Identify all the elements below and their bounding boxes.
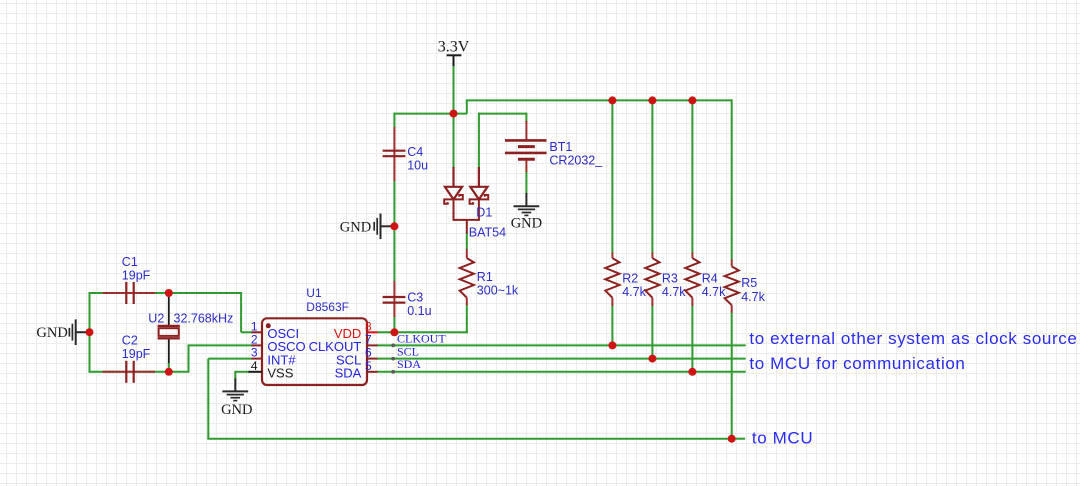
- label R3: [662, 272, 678, 286]
- svg-text:GND: GND: [221, 402, 252, 418]
- pin name SDA: [335, 366, 362, 381]
- wire OSCI vertical: [240, 292, 242, 332]
- wire R2 top: [611, 100, 613, 253]
- pin 2 stub: [252, 344, 263, 346]
- wire OSCO vertical: [188, 344, 190, 371]
- wire to battery: [479, 113, 527, 115]
- wire top rail: [466, 99, 732, 101]
- svg-text:0.1u: 0.1u: [407, 304, 431, 318]
- wire right diode anode: [478, 113, 480, 168]
- pin number 4: [251, 359, 258, 373]
- pin name OSCO: [267, 339, 305, 354]
- pin number 3: [251, 346, 258, 360]
- pin 1 stub: [252, 331, 263, 333]
- svg-text:10u: 10u: [407, 159, 428, 173]
- svg-text:2: 2: [251, 332, 258, 346]
- pin 6 stub: [367, 358, 378, 360]
- label C2 19pF: [122, 347, 151, 361]
- resistor R4: [685, 252, 699, 306]
- pin number 6: [365, 346, 372, 360]
- ground under BT1: [514, 193, 540, 215]
- svg-text:3: 3: [251, 346, 258, 360]
- pin 4 stub: [249, 371, 263, 373]
- net anchor SCL: [391, 357, 395, 361]
- wire VDD: [377, 331, 468, 333]
- wire SCL: [377, 358, 746, 360]
- wire R5 top: [731, 99, 733, 260]
- crystal U2: [158, 294, 180, 372]
- wire INT# horizontal: [208, 358, 252, 360]
- junction C4 GND: [390, 222, 398, 230]
- label C2: [122, 333, 138, 347]
- pin number 5: [365, 359, 372, 373]
- svg-text:C2: C2: [122, 333, 138, 347]
- svg-text:5: 5: [365, 359, 372, 373]
- svg-text:6: 6: [365, 346, 372, 360]
- wire C2 row: [90, 371, 190, 373]
- pin 5 stub: [367, 371, 378, 373]
- label 32.768kHz: [174, 312, 234, 326]
- svg-text:4.7k: 4.7k: [622, 285, 646, 299]
- capacitor C4: [383, 127, 406, 181]
- svg-text:32.768kHz: 32.768kHz: [174, 312, 234, 326]
- svg-text:VSS: VSS: [267, 366, 293, 381]
- capacitor C2: [103, 361, 156, 383]
- svg-text:3.3V: 3.3V: [438, 39, 470, 56]
- resistor R3: [645, 252, 659, 306]
- label C3: [407, 290, 423, 304]
- pin number 1: [251, 319, 258, 333]
- label BT1: [549, 140, 572, 154]
- svg-text:R4: R4: [702, 272, 718, 286]
- label D8563F: [306, 300, 349, 314]
- label CR2032_: [549, 154, 603, 168]
- svg-text:BT1: BT1: [549, 140, 572, 154]
- label C4: [407, 145, 423, 159]
- capacitor C1: [103, 282, 156, 304]
- svg-text:U2: U2: [148, 312, 164, 326]
- label U1: [306, 286, 322, 300]
- wire R2 bottom: [611, 305, 613, 345]
- svg-text:C3: C3: [407, 290, 423, 304]
- svg-text:to MCU for communication: to MCU for communication: [749, 354, 965, 373]
- wire C1 row: [90, 292, 242, 294]
- svg-text:C1: C1: [122, 255, 138, 269]
- wire C4 to C3: [393, 181, 395, 282]
- svg-text:8: 8: [365, 319, 372, 333]
- svg-text:GND: GND: [511, 216, 542, 232]
- net label SCL: [397, 344, 419, 358]
- wire C3 to VDD: [393, 317, 395, 333]
- junction to MCU: [728, 435, 736, 443]
- svg-text:19pF: 19pF: [122, 268, 151, 282]
- capacitor C3: [383, 281, 406, 317]
- ground left (crystal): [69, 319, 89, 345]
- diode D1a: [444, 167, 463, 220]
- label R3 4.7k: [662, 285, 686, 299]
- annotation MCU comm: [749, 354, 965, 373]
- IC U1: [262, 318, 367, 385]
- wire INT# vertical: [207, 359, 209, 439]
- svg-text:BAT54: BAT54: [469, 226, 506, 240]
- wire D1 cathode join: [453, 220, 480, 234]
- label R2: [622, 272, 638, 286]
- svg-text:4.7k: 4.7k: [741, 290, 765, 304]
- label GND left: [36, 325, 67, 341]
- pin number 2: [251, 332, 258, 346]
- wire battery top pin: [525, 113, 527, 122]
- svg-text:1: 1: [251, 319, 258, 333]
- pin 7 stub: [367, 344, 378, 346]
- net label SDA: [397, 357, 421, 371]
- svg-text:19pF: 19pF: [122, 347, 151, 361]
- svg-text:4.7k: 4.7k: [662, 285, 686, 299]
- svg-text:R2: R2: [622, 272, 638, 286]
- wire left diode anode: [453, 114, 455, 168]
- pin name SCL: [336, 352, 361, 367]
- label C1: [122, 255, 138, 269]
- wire to MCU bottom: [207, 438, 731, 440]
- wire VSS corner: [234, 371, 236, 379]
- svg-text:R5: R5: [741, 276, 757, 290]
- junction left GND: [86, 328, 94, 336]
- label D1: [476, 206, 492, 220]
- svg-text:SDA: SDA: [335, 366, 362, 381]
- wire to MCU stub: [732, 438, 745, 440]
- pin number 7: [365, 332, 372, 346]
- junction SDA R4: [688, 368, 696, 376]
- annotation to MCU: [752, 429, 813, 448]
- svg-text:to MCU: to MCU: [752, 429, 813, 448]
- wire jog up: [466, 100, 468, 113]
- wire R3 top: [651, 100, 653, 253]
- wire SDA: [377, 371, 746, 373]
- label R5: [741, 276, 757, 290]
- svg-text:U1: U1: [306, 286, 322, 300]
- junction rail R4: [688, 96, 696, 104]
- svg-text:to external other system as cl: to external other system as clock source: [749, 329, 1077, 348]
- wire R3 bottom: [651, 305, 653, 358]
- svg-text:R1: R1: [477, 270, 493, 284]
- resistor R1: [460, 249, 474, 305]
- ground under U1: [222, 379, 248, 401]
- pin 8 stub: [367, 331, 378, 333]
- svg-text:300~1k: 300~1k: [477, 284, 519, 298]
- resistor R5: [725, 259, 739, 312]
- net anchor CLKOUT: [391, 344, 395, 348]
- label R5 4.7k: [741, 290, 765, 304]
- label R2 4.7k: [622, 285, 646, 299]
- wire OSCO horizontal: [189, 344, 253, 346]
- label R4: [702, 272, 718, 286]
- label U2: [148, 312, 164, 326]
- wire D1 to R1: [466, 233, 468, 250]
- svg-text:D1: D1: [476, 206, 492, 220]
- svg-text:D8563F: D8563F: [306, 300, 349, 314]
- label GND BT1: [511, 216, 542, 232]
- net label CLKOUT: [397, 331, 446, 345]
- pin name VDD: [334, 326, 361, 341]
- junction rail R3: [648, 96, 656, 104]
- wire top horizontal to C4: [394, 113, 467, 115]
- svg-text:CR2032_: CR2032_: [549, 154, 603, 168]
- pin 3 stub: [252, 358, 263, 360]
- annotation clock source: [749, 329, 1077, 348]
- diode D1b: [470, 167, 489, 220]
- label BAT54: [469, 226, 506, 240]
- junction SCL R3: [648, 355, 656, 363]
- wire VSS horizontal: [235, 371, 249, 373]
- svg-text:4: 4: [251, 359, 258, 373]
- svg-text:GND: GND: [36, 325, 67, 341]
- junction C2/U2: [165, 368, 173, 376]
- svg-text:CLKOUT: CLKOUT: [397, 331, 446, 345]
- wire R5 bottom: [731, 312, 733, 439]
- svg-text:C4: C4: [407, 145, 423, 159]
- svg-text:7: 7: [365, 332, 372, 346]
- ground near C4: [374, 214, 394, 240]
- label GND U1: [221, 402, 252, 418]
- junction CLKOUT R2: [608, 341, 616, 349]
- pin name VSS: [267, 366, 293, 381]
- svg-text:R3: R3: [662, 272, 678, 286]
- label 0.1u: [407, 304, 431, 318]
- wire OSCI horizontal: [241, 331, 252, 333]
- junction VDD: [390, 328, 398, 336]
- label R4 4.7k: [702, 285, 726, 299]
- svg-text:SCL: SCL: [397, 344, 419, 358]
- label GND C4: [340, 219, 371, 235]
- wire R4 bottom: [691, 305, 693, 372]
- wire C4 top: [393, 113, 395, 128]
- junction C1/U2: [165, 289, 173, 297]
- wire 3.3V stem: [453, 66, 455, 114]
- wire R4 top: [691, 100, 693, 253]
- label 300~1k: [477, 284, 519, 298]
- pin name OSCI: [267, 326, 299, 341]
- label R1: [477, 270, 493, 284]
- battery BT1: [505, 121, 547, 172]
- svg-text:SDA: SDA: [397, 357, 421, 371]
- wire battery to GND: [525, 172, 527, 195]
- wire R1 to VDD wire: [466, 305, 468, 334]
- label C1 19pF: [122, 268, 151, 282]
- power 3.3V: [438, 39, 470, 68]
- pin number 8: [365, 319, 372, 333]
- junction 3.3V: [450, 110, 458, 118]
- pin name CLKOUT: [309, 339, 362, 354]
- resistor R2: [605, 252, 619, 306]
- wire CLKOUT: [377, 344, 746, 346]
- net anchor SDA: [391, 370, 395, 374]
- label 10u: [407, 159, 428, 173]
- pin name INT#: [267, 352, 296, 367]
- junction rail R2: [608, 96, 616, 104]
- wire left GND rail: [89, 292, 91, 373]
- svg-text:GND: GND: [340, 219, 371, 235]
